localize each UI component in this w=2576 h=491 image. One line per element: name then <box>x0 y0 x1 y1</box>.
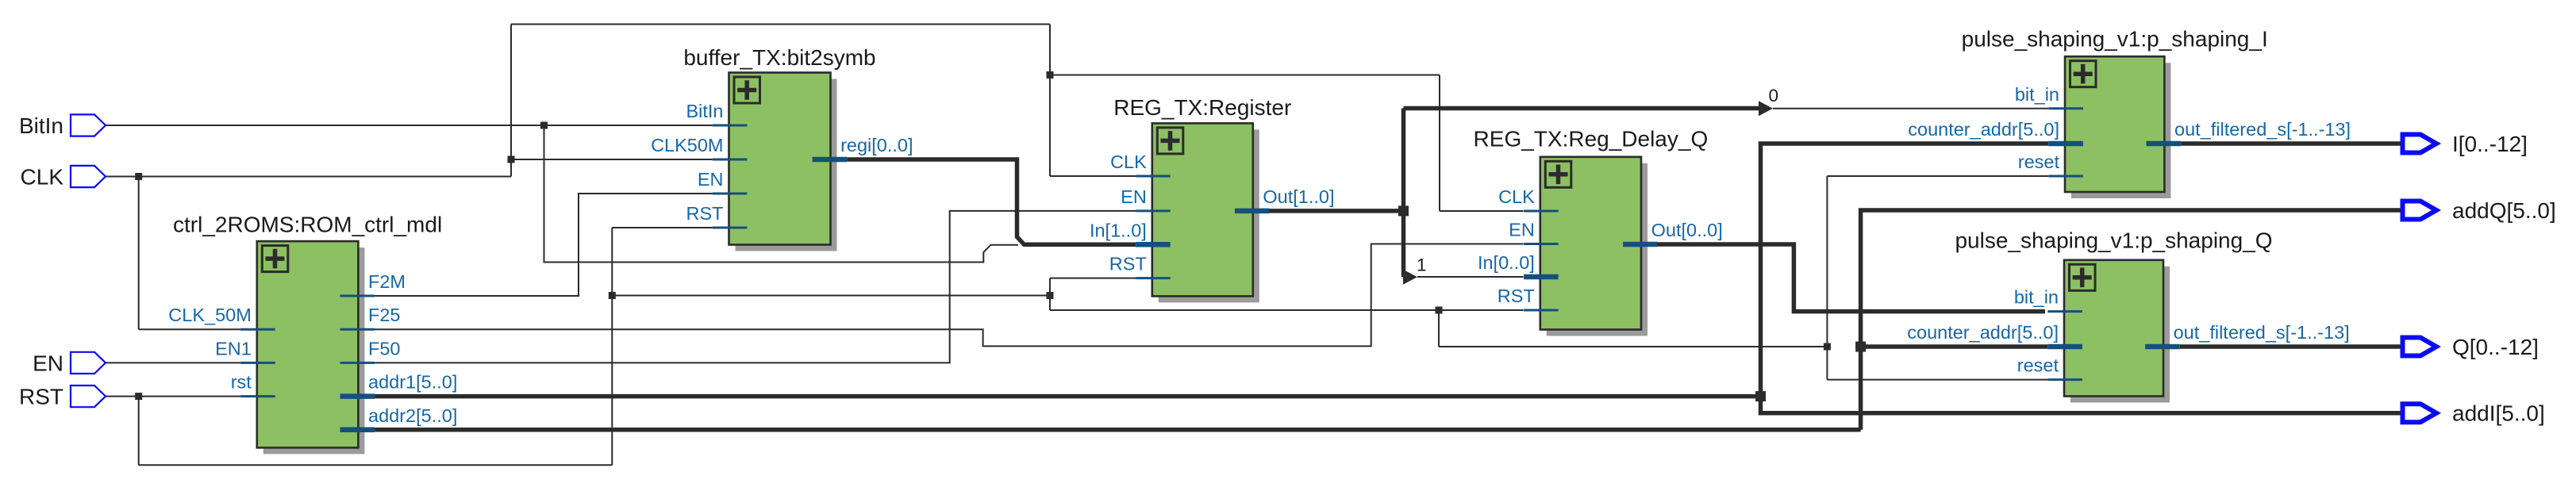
wire bit 1 to Reg_Delay_Q In <box>1417 276 1524 278</box>
svg-text:REG_TX:Register: REG_TX:Register <box>1113 95 1291 120</box>
wire reset into p_shaping_Q <box>1827 379 2047 381</box>
wire CLK50M branch to buffer <box>511 159 713 160</box>
wire RST down <box>1049 296 1051 311</box>
svg-text:buffer_TX:bit2symb: buffer_TX:bit2symb <box>683 45 875 70</box>
module U1 ROM_ctrl_mdl shadow <box>263 247 365 454</box>
pin In[0..0] of U4 Reg_Delay_Q <box>1524 274 1559 280</box>
junction <box>1436 307 1443 314</box>
pin CLK of U4 Reg_Delay_Q <box>1524 210 1559 213</box>
module U5 p_shaping_I shadow <box>2071 63 2170 198</box>
wire bit 0 to p_shaping_I bit_in <box>1773 108 2048 109</box>
junction <box>1047 292 1054 299</box>
pin In[1..0] of U3 Register <box>1136 242 1171 247</box>
svg-text:addr2[5..0]: addr2[5..0] <box>368 405 457 426</box>
pin Out[1..0] of U3 Register <box>1235 209 1270 214</box>
wire RST to Reg_Delay_Q RST <box>1050 309 1524 311</box>
svg-text:reset: reset <box>2018 152 2060 172</box>
bus out_filtered Q to port <box>2180 344 2401 349</box>
module U6 p_shaping_Q shadow <box>2070 267 2170 403</box>
wire RST riser <box>611 228 613 465</box>
svg-text:EN: EN <box>698 169 724 190</box>
svg-text:rst: rst <box>231 372 252 393</box>
svg-text:CLK: CLK <box>1498 186 1535 207</box>
svg-text:BitIn: BitIn <box>686 101 723 121</box>
wire RST bottom run <box>139 464 613 466</box>
pin CLK_50M of U1 ROM_ctrl_mdl <box>240 328 275 331</box>
pin RST of U4 Reg_Delay_Q <box>1524 309 1559 312</box>
svg-text:In[1..0]: In[1..0] <box>1090 220 1147 240</box>
svg-text:CLK: CLK <box>21 165 64 190</box>
svg-text:In[0..0]: In[0..0] <box>1478 252 1535 273</box>
svg-text:BitIn: BitIn <box>19 113 63 138</box>
pin EN of U3 Register <box>1136 209 1171 212</box>
bus rip arrow <box>1759 101 1773 116</box>
svg-text:out_filtered_s[-1..-13]: out_filtered_s[-1..-13] <box>2174 322 2350 343</box>
wire RST input to ROM rst <box>106 396 240 397</box>
bus junction <box>1398 205 1409 216</box>
module U2 bit2symb expand icon <box>734 77 760 103</box>
module U1 ROM_ctrl_mdl body <box>257 241 359 447</box>
svg-text:Q[0..-12]: Q[0..-12] <box>2452 335 2539 359</box>
svg-text:addI[5..0]: addI[5..0] <box>2452 401 2545 426</box>
bus Out[1..0] top run to bit select <box>1404 106 1763 111</box>
svg-text:addr1[5..0]: addr1[5..0] <box>368 372 457 393</box>
wire reset into p_shaping_I <box>1827 175 2048 177</box>
svg-text:CLK_50M: CLK_50M <box>168 305 252 325</box>
pin CLK of U3 Register <box>1136 175 1171 178</box>
bus rip arrow <box>1403 270 1417 285</box>
pin F25 of U1 ROM_ctrl_mdl <box>340 328 375 331</box>
wire F2M to buffer EN <box>375 194 713 296</box>
junction <box>609 292 616 299</box>
module U6 p_shaping_Q expand icon <box>2070 264 2096 290</box>
junction <box>1824 343 1831 351</box>
module U4 Reg_Delay_Q expand icon <box>1545 161 1571 187</box>
wire CLK into Reg_Delay_Q CLK <box>1440 210 1524 212</box>
module U3 Register expand icon <box>1157 128 1183 154</box>
junction <box>135 173 142 180</box>
pin addr1[5..0] of U1 ROM_ctrl_mdl <box>340 393 375 399</box>
wire RST into buffer RST <box>612 227 713 228</box>
pin bit_in of U5 p_shaping_I <box>2048 107 2083 109</box>
output port addQ[5..0] <box>2403 201 2437 220</box>
module U5 p_shaping_I body <box>2065 56 2164 192</box>
svg-text:CLK50M: CLK50M <box>651 135 723 155</box>
wire EN input to ROM EN1 <box>106 362 240 363</box>
wire CLK branch down to ROM <box>138 177 140 330</box>
pin rst of U1 ROM_ctrl_mdl <box>240 395 275 397</box>
junction <box>135 393 142 400</box>
wire CLK drop to Register <box>1049 25 1051 177</box>
output port addI[5..0] <box>2403 404 2437 422</box>
bus addr1 to addI port <box>1761 397 2401 413</box>
bus junction <box>1855 342 1866 352</box>
wire RST branch down <box>138 397 140 466</box>
pin EN of U2 bit2symb <box>713 193 748 195</box>
pin reset of U6 p_shaping_Q <box>2047 378 2082 381</box>
bus Out[1..0] riser <box>1401 109 1406 211</box>
svg-text:EN: EN <box>33 351 63 375</box>
wire reset riser to p_shaping_I <box>1826 176 1828 347</box>
pin bit_in of U6 p_shaping_Q <box>2047 310 2082 313</box>
output port I[0..-12] <box>2403 135 2437 153</box>
svg-text:out_filtered_s[-1..-13]: out_filtered_s[-1..-13] <box>2174 119 2351 140</box>
wire CLK branch to Reg_Delay_Q <box>1050 75 1440 76</box>
bus Out[1..0] from Register <box>1269 209 1403 213</box>
svg-text:RST: RST <box>1498 286 1535 306</box>
svg-text:bit_in: bit_in <box>2014 287 2059 308</box>
module U2 bit2symb shadow <box>736 79 837 251</box>
wire F50 to Register EN <box>375 211 1136 363</box>
bus addr1 run <box>375 394 1760 399</box>
pin RST of U3 Register <box>1136 277 1171 279</box>
module U6 p_shaping_Q body <box>2064 260 2163 397</box>
bus regi[0..0] to Register In <box>847 159 1136 244</box>
pin RST of U2 bit2symb <box>713 227 748 229</box>
wire CLK drop at Reg_Delay_Q <box>1439 75 1440 212</box>
wire BitIn input to buffer <box>106 125 713 126</box>
svg-text:0: 0 <box>1769 86 1779 105</box>
module U3 Register shadow <box>1159 129 1259 302</box>
pin counter_addr[5..0] of U5 p_shaping_I <box>2048 141 2083 147</box>
wire CLK into Register CLK <box>1050 175 1136 177</box>
bus addr1 riser to p_shaping_I counter_addr <box>1761 144 2049 397</box>
output port Q[0..-12] <box>2403 338 2437 356</box>
svg-text:EN: EN <box>1509 220 1535 240</box>
wire RST drop toward shapers <box>1438 310 1440 347</box>
pin F2M of U1 ROM_ctrl_mdl <box>340 295 375 297</box>
svg-text:bit_in: bit_in <box>2015 84 2059 105</box>
svg-text:F50: F50 <box>368 338 401 359</box>
bus addr2 run <box>375 428 1861 432</box>
input port EN <box>71 352 106 374</box>
wire reset drop to p_shaping_Q <box>1826 347 1828 380</box>
module U1 ROM_ctrl_mdl expand icon <box>262 246 288 272</box>
pin reset of U5 p_shaping_I <box>2048 175 2083 178</box>
svg-text:F2M: F2M <box>368 271 406 292</box>
bus out_filtered I to port <box>2181 141 2400 146</box>
module U4 Reg_Delay_Q shadow <box>1547 163 1647 336</box>
svg-text:reset: reset <box>2017 355 2059 376</box>
svg-text:RST: RST <box>19 385 63 409</box>
junction <box>1047 71 1054 79</box>
module U4 Reg_Delay_Q body <box>1540 157 1641 330</box>
svg-text:EN: EN <box>1121 186 1147 207</box>
input port CLK <box>71 166 106 187</box>
svg-text:ctrl_2ROMS:ROM_ctrl_mdl: ctrl_2ROMS:ROM_ctrl_mdl <box>173 213 442 237</box>
svg-text:I[0..-12]: I[0..-12] <box>2452 132 2528 156</box>
module U5 p_shaping_I expand icon <box>2070 61 2097 87</box>
junction <box>508 156 515 163</box>
wire CLK riser up <box>510 25 512 177</box>
wire BitIn branch down and to In[1..0] merge <box>544 125 1019 263</box>
input port RST <box>71 386 106 407</box>
svg-text:pulse_shaping_v1:p_shaping_Q: pulse_shaping_v1:p_shaping_Q <box>1955 228 2272 253</box>
pin EN1 of U1 ROM_ctrl_mdl <box>240 362 275 364</box>
wire RST run under Reg_Delay_Q <box>1439 346 1827 347</box>
pin addr2[5..0] of U1 ROM_ctrl_mdl <box>340 428 375 433</box>
module U2 bit2symb body <box>729 73 831 245</box>
svg-text:F25: F25 <box>368 305 401 325</box>
svg-text:counter_addr[5..0]: counter_addr[5..0] <box>1907 322 2059 343</box>
wire CLK input run <box>106 176 511 178</box>
svg-text:1: 1 <box>1417 255 1427 274</box>
pin out_filtered_s[-1..-13] of U6 p_shaping_Q <box>2145 344 2180 350</box>
svg-text:EN1: EN1 <box>215 338 252 359</box>
pin EN of U4 Reg_Delay_Q <box>1524 243 1559 245</box>
pin counter_addr[5..0] of U6 p_shaping_Q <box>2047 344 2082 350</box>
bus addr2 to p_shaping_Q counter_addr <box>1861 344 2048 349</box>
junction <box>540 122 548 129</box>
wire RST up to Register RST <box>1050 278 1136 296</box>
bus addr2 riser to addQ port <box>1861 210 2401 430</box>
bus junction <box>1755 391 1766 401</box>
wire CLK into ROM CLK_50M <box>139 328 240 330</box>
pin F50 of U1 ROM_ctrl_mdl <box>340 362 375 364</box>
pin regi[0..0] of U2 bit2symb <box>813 157 848 163</box>
wire CLK top run <box>511 24 1050 25</box>
svg-text:Out[0..0]: Out[0..0] <box>1651 220 1723 240</box>
module U3 Register body <box>1152 123 1253 296</box>
svg-text:CLK: CLK <box>1110 152 1147 172</box>
svg-text:pulse_shaping_v1:p_shaping_I: pulse_shaping_v1:p_shaping_I <box>1962 27 2268 52</box>
svg-text:counter_addr[5..0]: counter_addr[5..0] <box>1908 119 2059 140</box>
pin BitIn of U2 bit2symb <box>713 125 748 127</box>
svg-text:regi[0..0]: regi[0..0] <box>840 135 913 155</box>
wire RST branch right <box>612 295 1050 297</box>
wire F25 to Reg_Delay_Q EN <box>375 244 1524 347</box>
pin Out[0..0] of U4 Reg_Delay_Q <box>1623 242 1658 247</box>
input port BitIn <box>71 114 106 136</box>
svg-text:Out[1..0]: Out[1..0] <box>1263 186 1334 207</box>
svg-text:RST: RST <box>1109 254 1147 274</box>
svg-text:addQ[5..0]: addQ[5..0] <box>2452 198 2556 223</box>
bus Out[1..0] drop to bit select 1 <box>1401 211 1406 277</box>
svg-text:REG_TX:Reg_Delay_Q: REG_TX:Reg_Delay_Q <box>1474 127 1709 152</box>
svg-text:RST: RST <box>686 203 724 224</box>
pin CLK50M of U2 bit2symb <box>713 159 748 161</box>
pin out_filtered_s[-1..-13] of U5 p_shaping_I <box>2147 141 2182 147</box>
bus Out[0..0] from Reg_Delay_Q <box>1657 244 2045 312</box>
